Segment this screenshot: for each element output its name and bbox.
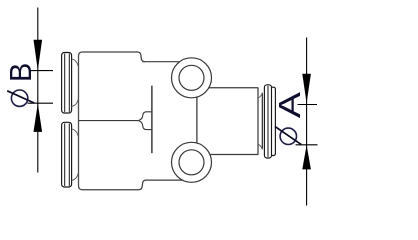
bottom branch boss outer circle [172,142,212,182]
dimension A line [306,38,308,206]
bottom-left collar inner lines [64,123,66,185]
dimension A upper arrowhead [302,74,311,103]
body outline with stepped top and bottom [83,52,145,62]
parting line between port bodies [79,120,139,122]
dimension A lower arrowhead [302,145,311,169]
bottom-left port release collar pill [62,122,72,187]
dimension B line [37,8,39,173]
right collar ring fillets [258,93,262,98]
top branch boss inner circle [179,65,204,90]
bottom branch boss inner circle [179,150,204,175]
dimension B extension line top [29,70,53,72]
top-left collar neck fillets [72,59,79,66]
label diameter symbol right [280,128,296,144]
dimension B extension line bottom [28,102,54,104]
dimension B upper arrowhead [34,40,43,71]
top-left collar inner lines [64,54,66,112]
right port collar ring [261,93,263,150]
dimension A extension line top [298,104,318,106]
body left face [79,52,83,190]
svg-text:B: B [4,63,38,82]
dimension B lower arrowhead [34,103,43,131]
vertical edge between bosses [196,97,198,143]
right collar inner line [267,86,269,157]
latch tab upper [139,112,152,121]
right collar outer dome [272,87,276,155]
barrel of right port [200,87,258,154]
svg-text:A: A [272,92,307,119]
mid body vertical edge [151,86,153,154]
right port collar pill [264,85,271,158]
latch tab lower [139,121,152,130]
bottom-left collar neck fillets [72,129,79,136]
dimension A extension line bottom [296,144,318,146]
label diameter symbol left [11,90,27,106]
narrow mid-section top and bottom edges [143,62,187,180]
top-left port release collar pill [62,53,72,114]
top branch boss outer circle [172,58,212,98]
